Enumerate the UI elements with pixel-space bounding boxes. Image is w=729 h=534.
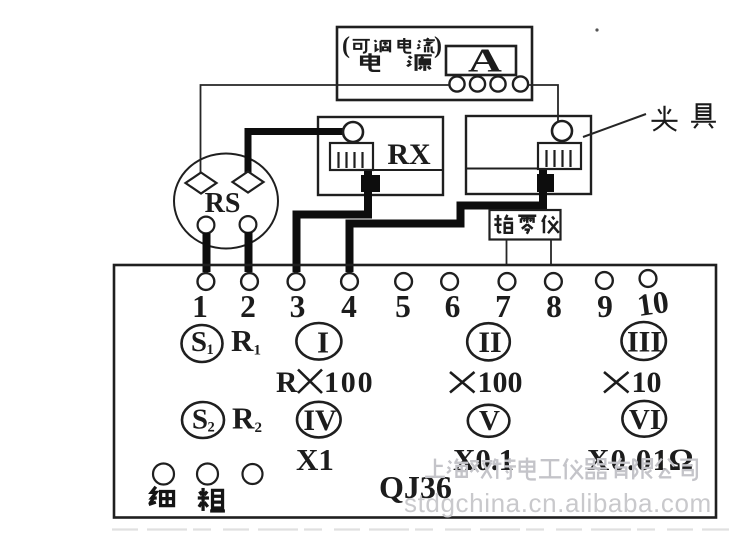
dial II circle (467, 323, 510, 360)
right clamp binding circle (552, 121, 572, 141)
svg-text:V: V (479, 405, 500, 437)
RX box inner ledge line (373, 169, 443, 171)
svg-text:7: 7 (495, 289, 511, 324)
svg-text:2: 2 (255, 420, 263, 436)
right clamp jaw (comb) (538, 143, 581, 169)
scan speck (595, 28, 598, 31)
svg-text:R: R (232, 401, 255, 436)
svg-text:100: 100 (478, 366, 523, 399)
svg-text:stdgchina.cn.alibaba.com: stdgchina.cn.alibaba.com (404, 488, 712, 518)
svg-text:R: R (231, 323, 254, 358)
wire nub on RX jaw (361, 175, 380, 192)
watermark line 1: company name (425, 458, 697, 480)
svg-text:6: 6 (445, 289, 461, 324)
thick wire: RS to terminal 1 (203, 233, 211, 272)
dial S2 circle (182, 402, 224, 438)
RS right diamond terminal (233, 172, 264, 193)
right clamp box (466, 116, 591, 194)
svg-text:IV: IV (303, 404, 337, 437)
svg-text:X1: X1 (296, 442, 334, 477)
x10 label (604, 372, 629, 393)
svg-text:8: 8 (546, 289, 562, 324)
svg-text:II: II (478, 326, 501, 359)
label: power source (dian yuan) (362, 53, 432, 71)
svg-text:S: S (192, 404, 208, 436)
label: clamp (jia ju) (651, 104, 715, 130)
RS left diamond terminal (186, 173, 217, 194)
QJ36 bridge main box (114, 265, 716, 518)
svg-text:RX: RX (387, 138, 431, 171)
svg-text:I: I (317, 325, 329, 360)
wire: power supply right to clamp circle (527, 85, 558, 122)
svg-text:2: 2 (240, 289, 256, 324)
RX clamp jaw (comb) (330, 143, 373, 170)
wire nub on right jaw (537, 174, 554, 192)
dial III circle (622, 322, 666, 360)
svg-text:10: 10 (635, 284, 671, 323)
svg-text:10: 10 (632, 366, 662, 399)
null indicator label (zhi ling yi) (494, 215, 558, 234)
svg-text:2: 2 (208, 420, 215, 436)
fine (xi) label (149, 487, 225, 511)
wire: null indicator to terminal 7 (506, 240, 508, 267)
thick wire: right jaw down-left to terminal 4 (350, 160, 544, 272)
svg-text:1: 1 (207, 342, 214, 358)
svg-text:III: III (627, 326, 662, 359)
scanner artifact dashes at bottom (112, 528, 729, 530)
x100 label (450, 372, 475, 393)
svg-text:S: S (191, 326, 207, 358)
svg-text:VI: VI (629, 404, 661, 436)
RX clamp binding circle (343, 122, 363, 142)
dial V circle (468, 405, 510, 437)
thick wire: RX jaw down-left to terminal 3 (297, 160, 369, 272)
galvanometer adjust circles (fine/coarse) (153, 464, 174, 485)
wire: null indicator to terminal 8 (550, 240, 552, 267)
right box inner ledge line (466, 168, 538, 170)
terminal numbers 1-10 (192, 284, 671, 324)
dial S1 circle (182, 325, 223, 362)
label (adjustable current) (342, 33, 442, 59)
svg-text:3: 3 (290, 289, 306, 324)
pointer line to clamp label (583, 114, 646, 137)
dial I circle (296, 323, 341, 360)
svg-text:RS: RS (205, 188, 241, 219)
svg-text:R: R (276, 367, 298, 399)
svg-text:(: ( (342, 33, 350, 59)
thick wire: RS to terminal 2 (245, 232, 253, 272)
thick wire: RS right diamond to RX clamp circle (248, 132, 344, 179)
svg-text:100: 100 (324, 366, 374, 399)
power supply terminal circles (449, 76, 528, 91)
wire: power supply left to RS left diamond (201, 85, 450, 178)
dial VI circle (622, 401, 666, 437)
svg-text:1: 1 (254, 343, 262, 359)
svg-text:9: 9 (597, 289, 613, 324)
power supply box (adjustable current source) (337, 27, 532, 100)
RS bottom terminal circles (198, 217, 215, 234)
ammeter A box (446, 46, 516, 75)
svg-text:): ) (434, 33, 442, 59)
RS standard resistor circle (174, 154, 278, 249)
svg-text:A: A (468, 41, 502, 79)
terminal circles 1-10 (198, 270, 657, 290)
svg-text:1: 1 (192, 289, 208, 324)
svg-text:5: 5 (395, 289, 411, 324)
null indicator (zhi-ling-yi) box (490, 210, 561, 240)
svg-text:4: 4 (341, 289, 357, 324)
RX clamp box (318, 117, 443, 195)
dial IV circle (297, 402, 341, 438)
